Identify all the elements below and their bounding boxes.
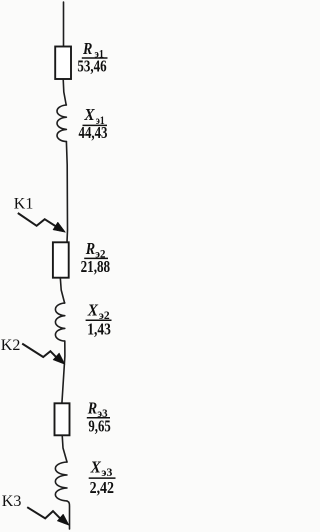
svg-text:53,46: 53,46 bbox=[77, 56, 106, 75]
svg-text:2,42: 2,42 bbox=[90, 478, 114, 497]
wire: R3 to L3 bbox=[62, 435, 67, 462]
wire: top feed to R1 bbox=[63, 2, 65, 47]
wire: L1 down past K1 to R2 bbox=[66, 142, 67, 243]
resistor R2 (21,88) bbox=[53, 242, 69, 277]
label R_e3 = 9,65 bbox=[87, 398, 111, 435]
resistor R1 (53,46) bbox=[55, 47, 71, 80]
svg-text:R: R bbox=[85, 239, 95, 258]
svg-text:X: X bbox=[87, 300, 99, 319]
svg-text:K1: K1 bbox=[14, 196, 34, 213]
inductor X3 coil bbox=[55, 462, 67, 501]
K2 fault lightning arrow bbox=[22, 344, 65, 365]
svg-text:K3: K3 bbox=[2, 493, 22, 510]
svg-text:44,43: 44,43 bbox=[79, 123, 108, 142]
svg-text:1,43: 1,43 bbox=[87, 319, 111, 338]
wire: L3 bottom tail bbox=[67, 501, 70, 529]
svg-text:21,88: 21,88 bbox=[81, 257, 111, 276]
svg-text:R: R bbox=[87, 398, 97, 417]
wire: L2 down past K2 to R3 bbox=[62, 341, 65, 403]
svg-text:9,65: 9,65 bbox=[88, 416, 110, 435]
resistor R3 (9,65) bbox=[55, 403, 70, 435]
wire: R2 to L2 bbox=[60, 278, 64, 303]
label R_e1 = 53,46 bbox=[77, 39, 107, 75]
label X_e2 = 1,43 bbox=[86, 300, 112, 338]
inductor X1 coil bbox=[57, 105, 66, 142]
label R_e2 = 21,88 bbox=[81, 239, 111, 276]
svg-text:R: R bbox=[82, 39, 92, 58]
svg-text:X: X bbox=[83, 105, 95, 124]
wire: R1 to L1 bbox=[63, 79, 66, 105]
inductor X2 coil bbox=[55, 303, 64, 341]
K3 fault lightning arrow bbox=[27, 507, 69, 525]
label X_e3 = 2,42 bbox=[89, 458, 116, 497]
svg-text:X: X bbox=[90, 458, 102, 477]
svg-text:K2: K2 bbox=[1, 337, 21, 354]
K1 fault lightning arrow bbox=[18, 213, 66, 232]
label X_e1 = 44,43 bbox=[79, 105, 108, 142]
